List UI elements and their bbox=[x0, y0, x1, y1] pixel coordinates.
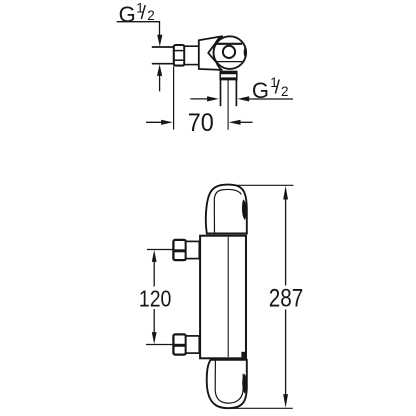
arrow right to downpipe left edge bbox=[207, 96, 219, 101]
bottom knob dark lens bbox=[242, 374, 247, 394]
arrow up to pipe bottom edge bbox=[157, 64, 162, 76]
top fitting hex nut front view bbox=[173, 240, 185, 260]
adapter top view bbox=[184, 46, 199, 64]
body inner panel line bbox=[227, 237, 229, 357]
arrow up 120 bbox=[152, 250, 157, 262]
extension line bottom fitting bbox=[146, 344, 173, 346]
dimension 70 bbox=[146, 67, 253, 137]
arrow down 120 bbox=[152, 332, 157, 344]
label G1/2 top-left bbox=[119, 1, 155, 27]
wire inlet pipe top view bbox=[152, 46, 174, 48]
inner circle top view bbox=[223, 46, 235, 58]
dimension 287 bbox=[230, 185, 303, 408]
body rectangle front view bbox=[200, 236, 246, 359]
svg-text:287: 287 bbox=[269, 285, 304, 313]
wedge housing top view bbox=[199, 36, 222, 70]
lower chord line bbox=[216, 61, 242, 63]
hex nut top view bbox=[174, 45, 185, 66]
right cap lens top view bbox=[244, 46, 247, 58]
top knob front view bbox=[206, 185, 247, 234]
leader line G1/2 top-left bbox=[117, 22, 160, 36]
downpipe centerline bbox=[227, 80, 229, 130]
arrow up 287 bbox=[283, 186, 288, 200]
bottom knob front view bbox=[207, 360, 247, 408]
top knob dark lens bbox=[242, 199, 247, 220]
svg-text:/: / bbox=[275, 78, 281, 99]
svg-text:G: G bbox=[119, 2, 136, 27]
dimension line 287 bbox=[285, 197, 287, 286]
extension line top fitting bbox=[147, 249, 173, 251]
svg-text:2: 2 bbox=[147, 8, 155, 23]
arrow left to downpipe right edge bbox=[238, 96, 250, 101]
leader underline G1/2 right bbox=[245, 98, 293, 100]
extension line knob bottom bbox=[230, 407, 293, 409]
valve body circle top view bbox=[214, 36, 247, 69]
dimension 120 bbox=[139, 250, 173, 345]
arrow right toward 70 left extension bbox=[161, 120, 173, 125]
arrow down to pipe top edge bbox=[157, 35, 162, 47]
arrow shaft left of downpipe bbox=[190, 98, 209, 100]
upper chord line bbox=[217, 43, 242, 45]
arrow shaft below pipe bbox=[159, 74, 161, 91]
extension line left of 70 bbox=[173, 67, 175, 130]
arrow left toward downpipe centerline bbox=[229, 120, 241, 125]
collar below body top view bbox=[220, 71, 237, 79]
arrow down 287 bbox=[283, 394, 288, 408]
top fitting adapter front view bbox=[186, 241, 200, 258]
svg-text:70: 70 bbox=[188, 109, 214, 137]
label G1/2 right bbox=[252, 75, 289, 103]
svg-text:2: 2 bbox=[281, 84, 289, 99]
svg-text:120: 120 bbox=[139, 285, 172, 311]
dark square marker bottom right of body bbox=[241, 352, 245, 358]
bottom fitting hex nut front view bbox=[173, 334, 185, 354]
extension line knob top bbox=[235, 184, 294, 186]
bottom fitting adapter front view bbox=[186, 336, 200, 353]
dimension line 120 bbox=[153, 259, 155, 287]
wire downpipe top view bbox=[220, 80, 222, 106]
